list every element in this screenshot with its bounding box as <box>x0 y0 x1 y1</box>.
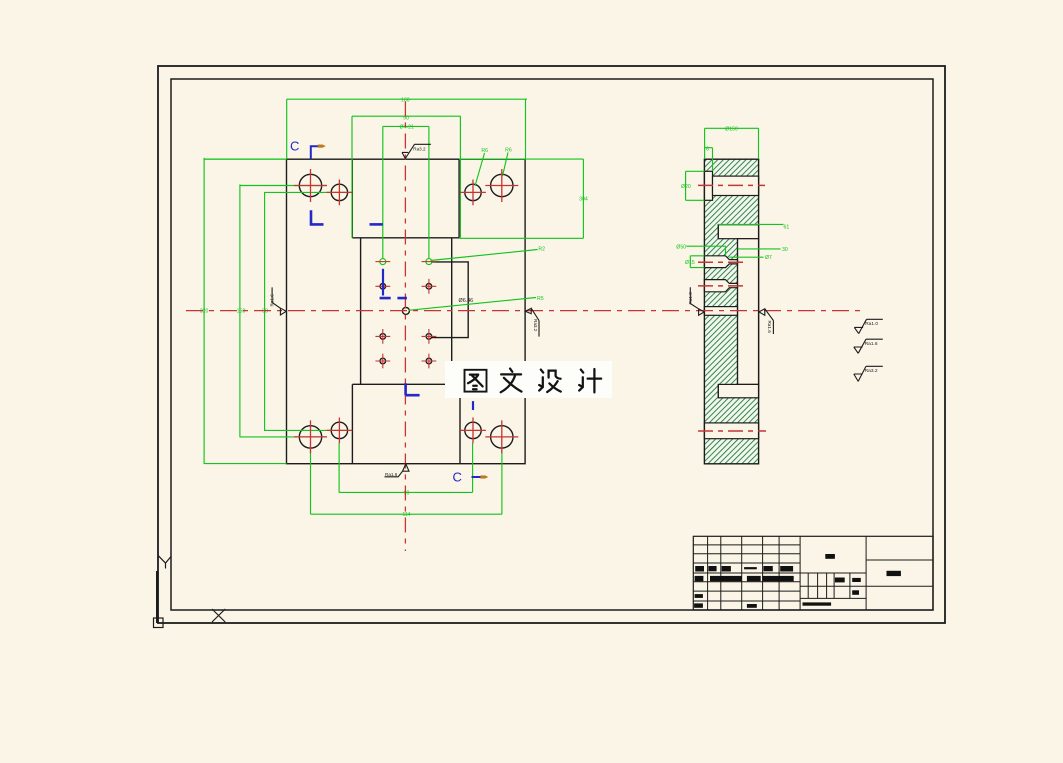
crosshair small bottom-left <box>327 418 353 444</box>
main vertical centerline <box>404 102 406 552</box>
left height dim 3 <box>265 192 352 431</box>
plan view lower inner block <box>352 384 460 463</box>
section bottom hole centerline <box>698 430 766 432</box>
leader R6 b <box>503 153 509 177</box>
roughness symbol bottom of plan <box>385 464 410 477</box>
top edge extension line <box>204 159 583 238</box>
crosshair big top-left <box>294 169 327 202</box>
svg-text:150: 150 <box>237 308 246 314</box>
roughness symbol top of plan <box>402 144 431 158</box>
view arrow bottom <box>481 476 488 479</box>
small hole row3 right <box>426 334 432 340</box>
green ring hole row1 right <box>426 259 432 265</box>
section inner edge lines <box>718 225 737 398</box>
small hole row4 left <box>380 358 386 364</box>
section dia15 bracket <box>690 256 704 268</box>
svg-text:30: 30 <box>782 247 788 253</box>
section line corner d <box>406 383 420 395</box>
svg-text:C: C <box>453 470 462 485</box>
title block right region rows <box>866 560 933 586</box>
section lower slot <box>718 384 758 397</box>
section 30 leader <box>738 248 781 250</box>
svg-text:Ra3.2: Ra3.2 <box>533 319 538 332</box>
roughness symbol section right edge <box>759 309 773 334</box>
section screw hole2 centerline <box>698 285 744 287</box>
svg-text:90: 90 <box>404 490 410 496</box>
svg-text:C: C <box>290 139 299 154</box>
crosshair hole r3R <box>422 329 437 344</box>
section upper slot <box>718 225 758 239</box>
dowel hole small top-right <box>465 184 481 200</box>
roughness symbol left edge of plan <box>272 287 286 315</box>
bolt hole big top-left <box>299 174 321 196</box>
crosshair small bottom-right <box>460 418 486 444</box>
svg-text:90: 90 <box>262 308 268 314</box>
outer drawing frame <box>158 66 945 623</box>
roughness symbol section left edge <box>690 287 704 315</box>
dowel hole small bottom-right <box>465 422 481 438</box>
title block left table columns <box>693 536 933 610</box>
roughness note 1 <box>854 319 883 333</box>
section top hole bore <box>713 176 759 195</box>
svg-text:304: 304 <box>579 197 588 203</box>
section dia7 leader <box>729 256 763 258</box>
section center hole band <box>704 307 737 316</box>
section dim 6 <box>705 148 713 171</box>
svg-text:Ra1.6: Ra1.6 <box>767 321 772 334</box>
left height dim 1 <box>204 158 286 464</box>
green ring hole row1 left <box>380 259 386 265</box>
roughness note 2 <box>854 339 883 353</box>
svg-text:Ø7: Ø7 <box>765 255 772 261</box>
crosshair hole r2R <box>422 279 437 294</box>
svg-text:R6: R6 <box>505 147 512 153</box>
section top counterbore <box>704 171 712 200</box>
bolt hole big bottom-left <box>299 426 321 448</box>
glyph wen <box>501 369 522 393</box>
svg-text:Ra1.6: Ra1.6 <box>865 341 878 347</box>
svg-text:R5: R5 <box>537 296 544 302</box>
svg-text:Ra1.6: Ra1.6 <box>270 294 275 307</box>
svg-text:Ra1.0: Ra1.0 <box>865 321 878 327</box>
roughness symbol right edge of plan <box>525 308 539 336</box>
watermark band <box>445 361 612 398</box>
small hole row4 right <box>426 358 432 364</box>
slot outline rectangle <box>431 262 468 338</box>
section outer outline <box>704 159 758 464</box>
leader R5 <box>409 298 537 311</box>
svg-text:Ø6.46: Ø6.46 <box>459 298 474 304</box>
title block outline <box>693 536 933 610</box>
dowel hole small bottom-left <box>331 422 347 438</box>
svg-text:R6: R6 <box>481 148 488 154</box>
crosshair small top-right <box>460 180 486 206</box>
svg-text:90: 90 <box>403 116 409 122</box>
svg-text:Ra1.6: Ra1.6 <box>385 472 398 477</box>
title block left table rows <box>693 545 800 601</box>
section line corner L1 <box>311 210 324 224</box>
X axis mark <box>212 609 225 622</box>
roughness note 3 <box>854 366 883 381</box>
section screw hole 2 <box>704 280 737 292</box>
leader R6 a <box>475 153 485 186</box>
section line end bottom <box>472 476 481 478</box>
title block middle sub-grid <box>800 573 866 598</box>
section line vertical b <box>382 269 384 296</box>
section dia50 leader <box>686 246 725 256</box>
svg-text:61: 61 <box>784 225 790 231</box>
crosshair big bottom-right <box>485 420 518 453</box>
plan view outer rectangle <box>287 159 526 464</box>
section 61 leader <box>718 223 783 225</box>
section line dash e <box>472 401 474 410</box>
glyph she <box>539 370 561 392</box>
small hole row2 right <box>426 284 432 290</box>
svg-text:Ø20: Ø20 <box>681 184 691 190</box>
main horizontal centerline <box>186 310 865 312</box>
leader R2 <box>431 250 538 261</box>
small hole row2 left <box>380 284 386 290</box>
svg-text:320: 320 <box>200 308 209 314</box>
small hole row3 left <box>380 334 386 340</box>
section screw hole1 centerline <box>698 261 744 263</box>
bolt hole big top-right <box>491 174 513 196</box>
section top hole centerline <box>698 184 765 186</box>
svg-text:Ø50: Ø50 <box>676 244 686 250</box>
plan view middle narrow column <box>361 238 452 384</box>
center pilot hole <box>402 307 409 314</box>
thick plot edge segment <box>156 571 159 623</box>
svg-text:Ra1.0: Ra1.0 <box>688 292 693 305</box>
svg-text:Ø150: Ø150 <box>725 127 738 133</box>
plan view upper inner block <box>352 159 459 238</box>
plot origin square marker <box>154 618 164 628</box>
crosshair hole r1L <box>375 261 390 263</box>
crosshair small top-left <box>327 180 353 206</box>
svg-text:Ra3.2: Ra3.2 <box>865 368 878 374</box>
section bottom hole band <box>704 423 758 439</box>
top hole dim line <box>383 126 429 259</box>
top width dim 90 line <box>352 116 461 238</box>
crosshair hole r1R <box>422 261 437 263</box>
crosshair big top-right <box>485 169 518 202</box>
svg-text:R2: R2 <box>538 247 545 253</box>
crosshair hole r4R <box>422 354 437 369</box>
section dia20 bracket <box>686 171 705 200</box>
Y axis mark <box>158 556 171 569</box>
crosshair hole r2L <box>375 279 390 294</box>
crosshair big bottom-left <box>294 420 327 453</box>
svg-text:Ra3.2: Ra3.2 <box>413 147 426 152</box>
svg-text:114: 114 <box>402 512 410 518</box>
glyph tu <box>465 370 487 392</box>
dowel hole small top-left <box>331 184 347 200</box>
section right gap strip <box>738 239 759 385</box>
section line dash a <box>370 223 383 226</box>
bottom dim 114 <box>311 450 502 514</box>
inner drawing frame <box>171 79 933 610</box>
svg-text:Ø15: Ø15 <box>685 260 695 266</box>
crosshair hole r4L <box>375 354 390 369</box>
title block text bars <box>694 554 901 608</box>
top width dim 160 line <box>287 99 527 159</box>
glyph ji <box>579 369 601 392</box>
crosshair hole r3L <box>375 329 390 344</box>
bottom dim 90 <box>339 443 473 492</box>
section line start top <box>311 146 318 159</box>
section screw hole 1 <box>704 256 737 268</box>
bolt hole big bottom-right <box>491 426 513 448</box>
section dia150 dim <box>705 128 759 159</box>
section line dash c <box>380 297 407 300</box>
view arrow top <box>318 145 325 148</box>
section hatched body <box>704 159 758 464</box>
svg-text:Ø4-21: Ø4-21 <box>399 124 414 130</box>
svg-text:6: 6 <box>706 146 709 152</box>
left height dim 2 <box>240 184 327 437</box>
